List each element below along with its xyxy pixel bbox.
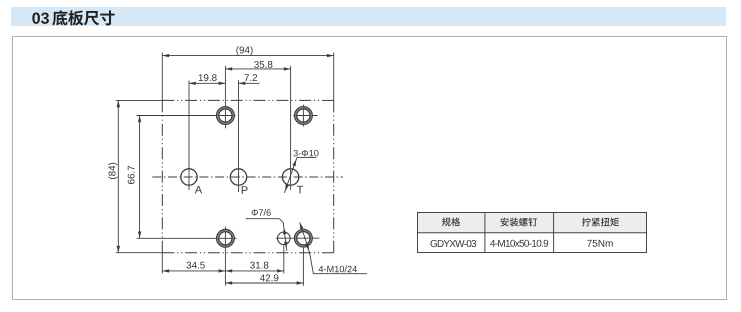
ext line A col: [188, 81, 190, 190]
port P hole: [230, 169, 246, 185]
ext line P col: [238, 80, 240, 192]
(84) top ext: [116, 99, 163, 101]
plate right edge (phantom): [333, 100, 335, 252]
bottom-left hole horizontal: [137, 237, 237, 239]
label T: [297, 186, 303, 194]
small hole phi7/6: [278, 232, 291, 245]
ext line T col: [290, 66, 292, 190]
ext line col 225 upper: [224, 66, 226, 129]
label P: [242, 186, 248, 194]
label A: [195, 186, 202, 194]
top-left hole horizontal: [137, 115, 236, 117]
bottom holes horizontal: [276, 237, 319, 239]
dim 7.2: [239, 82, 260, 84]
ext line small hole col: [283, 245, 285, 273]
table header 规格: [442, 217, 460, 226]
dim 31.8: [225, 270, 283, 272]
dim 34.5: [162, 270, 225, 272]
dim 19.8: [189, 82, 225, 84]
title text 底板尺寸: [52, 10, 114, 25]
port T hole: [282, 169, 298, 185]
table cell GDYXW-03: [430, 240, 476, 247]
ext line col 225 lower: [224, 227, 226, 286]
port A hole: [181, 169, 197, 185]
ext line col 303 lower: [302, 248, 304, 286]
spec table grid: [417, 212, 648, 254]
dim (94): [162, 55, 333, 57]
dim (84): [117, 100, 119, 252]
plate left edge (phantom): [161, 100, 163, 252]
title text 03: [32, 13, 49, 24]
table cell 75Nm: [587, 240, 613, 247]
plate bottom edge (phantom): [162, 252, 333, 254]
ports centerline: [152, 176, 343, 178]
top-right hole vertical: [302, 105, 304, 127]
table header 安装螺钉: [501, 218, 538, 227]
M10 hole bottom-right: [295, 229, 313, 247]
ext line right edge above: [333, 53, 335, 101]
ext line left edge above: [161, 53, 163, 101]
M10 hole top-right: [295, 107, 313, 125]
plate top edge (phantom): [162, 99, 333, 101]
M10 hole bottom-left: [217, 229, 235, 247]
(84) bottom ext: [116, 252, 163, 254]
dim 66.7: [139, 116, 141, 239]
M10 hole top-left: [217, 107, 235, 125]
top-right hole horizontal: [293, 115, 317, 117]
table header 拧紧扭矩: [582, 218, 619, 227]
table cell 4-M10x50-10.9: [490, 240, 548, 247]
dim 42.9: [225, 282, 303, 284]
dim 35.8: [225, 68, 290, 70]
leader Φ7/6: [246, 218, 280, 220]
leader 4-M10/24: [300, 222, 310, 252]
ext line left edge below: [161, 253, 163, 274]
leader 3-Φ10: [297, 157, 316, 159]
title bar: [11, 7, 726, 26]
